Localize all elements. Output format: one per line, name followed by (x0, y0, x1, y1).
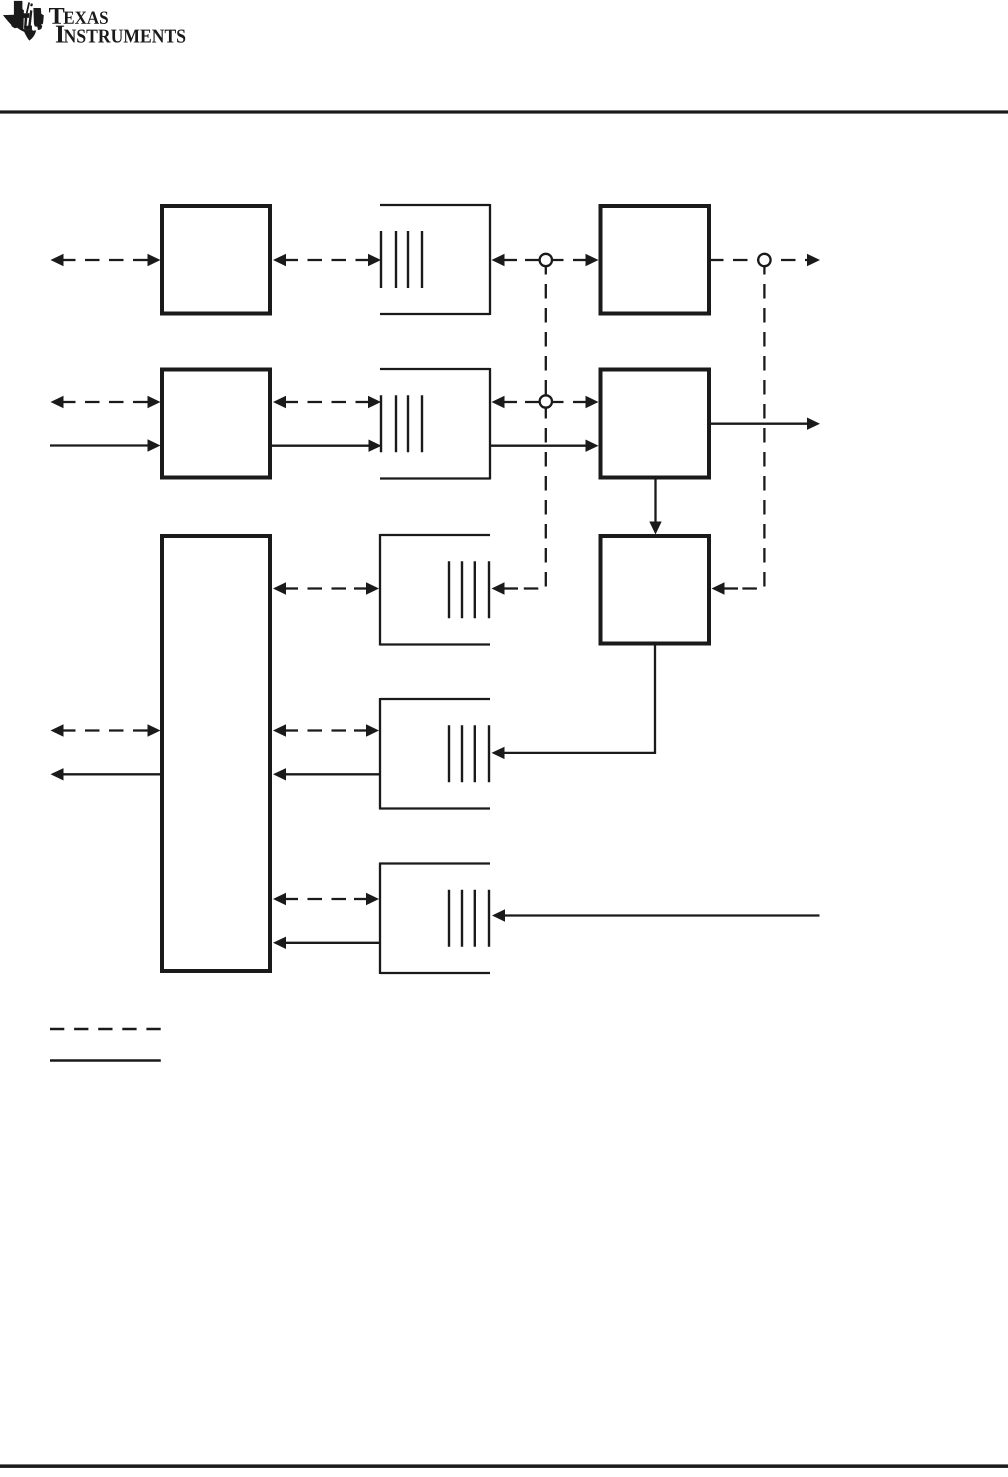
wire W12: dashed bus, B6 to F3 (273, 582, 379, 594)
wire W1: dashed bus, page-left to B1 (51, 254, 161, 266)
logo wordmark INSTRUMENTS (56, 26, 185, 43)
Texas Instruments logo bug (state of Texas with ti) (3, 1, 44, 41)
wire W11: solid output B4 to page-right (711, 418, 820, 430)
node N3 (540, 395, 552, 407)
wire W5: dashed bus, page-left to B3 (51, 396, 161, 408)
top header rule (0, 110, 1008, 113)
wire W21: dashed bus, B6 to F5 (273, 893, 379, 905)
block B4 (row2 right) (601, 370, 710, 478)
wire W10: solid line F2 to B4 (490, 440, 599, 452)
bottom footer rule (0, 1464, 1008, 1468)
block B3 (row2 left) (162, 370, 270, 478)
block B5 (middle right) (601, 536, 710, 644)
wire W22: solid line F5 to B6 (273, 937, 380, 949)
legend dashed-line sample (50, 1028, 161, 1031)
node N2 (758, 254, 770, 266)
legend solid-line sample (50, 1059, 161, 1062)
wire W18: solid output B6 to page-left (51, 768, 162, 780)
FIFO F4 (row4) (380, 698, 490, 810)
wire W20: solid line F4 to B6 (273, 768, 380, 780)
wire W17: dashed bus, page-left to B6 (51, 724, 161, 736)
wire W15: solid arrow B4 down to B5 (649, 478, 661, 535)
node N1 (540, 254, 552, 266)
FIFO F5 (row5) (380, 863, 490, 975)
wire W16: solid line B5 bottom, down then left into F4 (492, 644, 656, 759)
wire W14: dashed line from node N2 down then left into B5 (712, 260, 765, 595)
block B6 (tall left) (162, 536, 270, 971)
wire W7: dashed bus, B3 to F2 (273, 396, 381, 408)
wire W4: dashed output B2 to page-right through node N2 (711, 254, 820, 266)
FIFO F1 (row1) (380, 204, 490, 315)
wire W13: dashed line from node N1 down then left into F3 (492, 260, 546, 595)
wire W23: long solid input from right into F5 (492, 909, 820, 921)
FIFO F2 (row2) (380, 368, 490, 480)
wire W6: solid input, page-left to B3 (50, 439, 161, 451)
logo wordmark TEXAS (49, 8, 108, 24)
block B2 (row1 right) (601, 206, 710, 314)
FIFO F3 (row3) (380, 534, 490, 646)
block B1 (row1 left) (162, 206, 270, 314)
wire W2: dashed bus, B1 to F1 (273, 254, 381, 266)
wire W9: dashed bus F2 to B4 through node N3 (492, 396, 599, 408)
wire W3: dashed bus F1 to B2 through node N1 (492, 254, 599, 266)
wire W19: dashed bus, B6 to F4 (273, 724, 379, 736)
wire W8: solid line B3 to F2 (272, 440, 382, 452)
